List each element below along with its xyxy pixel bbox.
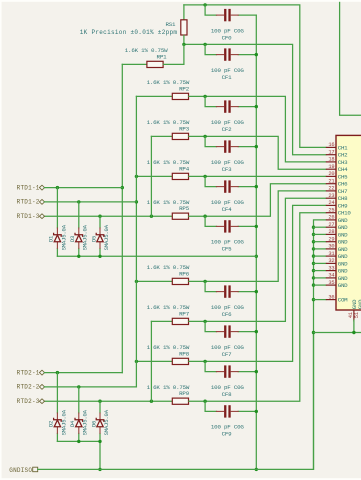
junctions TVS rail upper bbox=[77, 255, 102, 258]
port RTD2-3 bbox=[39, 399, 44, 404]
svg-text:CF4: CF4 bbox=[222, 206, 233, 213]
wire RTD2-1 bbox=[44, 372, 122, 374]
svg-text:RP1: RP1 bbox=[157, 53, 168, 60]
junction RP9 / CF9 bbox=[203, 400, 206, 403]
svg-text:33: 33 bbox=[328, 265, 334, 271]
svg-text:GND: GND bbox=[338, 282, 348, 289]
wire CF2 right to bus bbox=[238, 106, 256, 108]
wire vertical RP7-RP9 bbox=[150, 321, 152, 401]
wire vertical RTD-1 net bbox=[121, 64, 123, 372]
wire D4 bottom bbox=[78, 434, 80, 442]
junctions TVS rail lower bbox=[77, 440, 102, 471]
resistor RP8 bbox=[172, 358, 188, 364]
wire D3 bottom bbox=[78, 249, 80, 257]
svg-text:RP8: RP8 bbox=[179, 350, 190, 357]
svg-text:RP7: RP7 bbox=[179, 310, 190, 317]
capacitor CF4 bbox=[216, 180, 239, 192]
wire D1 top bbox=[56, 188, 58, 228]
wire COM pin 36 bbox=[314, 299, 326, 301]
svg-text:36: 36 bbox=[328, 294, 334, 300]
pin 24 line bbox=[326, 204, 336, 206]
wire CF6 left bbox=[205, 281, 216, 291]
svg-text:SMAJ5.0A: SMAJ5.0A bbox=[103, 409, 110, 435]
svg-text:32: 32 bbox=[328, 258, 334, 264]
wire bottom GND rail bbox=[314, 332, 361, 334]
svg-text:18: 18 bbox=[328, 157, 334, 163]
svg-text:31: 31 bbox=[328, 251, 334, 257]
wire GND pin 28 bbox=[314, 233, 326, 235]
svg-text:26: 26 bbox=[328, 215, 334, 221]
wire RP6 to pin 22 bbox=[189, 191, 326, 282]
svg-text:1K Precision ±0.01% ±2ppm: 1K Precision ±0.01% ±2ppm bbox=[80, 29, 178, 36]
pin 17 line bbox=[326, 154, 336, 156]
svg-text:100 pF C0G: 100 pF C0G bbox=[211, 304, 245, 311]
pin 29 line bbox=[326, 241, 336, 243]
svg-text:CH9: CH9 bbox=[338, 202, 348, 209]
wire D6 bottom bbox=[99, 434, 101, 442]
pin 31 line bbox=[326, 255, 336, 257]
wire RP2 row bbox=[136, 95, 172, 97]
wire D4 top bbox=[78, 387, 80, 413]
svg-text:100 pF C0G: 100 pF C0G bbox=[211, 159, 245, 166]
wire RP8 to pin 24 bbox=[189, 205, 326, 361]
wire GND pin 27 bbox=[314, 226, 326, 228]
wire top-right edge net bbox=[340, 0, 361, 115]
junction RTD1-3 / RP3 vertical bbox=[150, 215, 153, 218]
wire GND pin 29 bbox=[314, 241, 326, 243]
port RTD1-3 bbox=[39, 214, 44, 219]
junction RP8 / left vertical bbox=[135, 360, 138, 363]
svg-text:CF5: CF5 bbox=[222, 246, 233, 253]
pin 36 line bbox=[326, 299, 336, 301]
wire GND pin 35 bbox=[314, 284, 326, 286]
svg-text:COM: COM bbox=[338, 297, 348, 304]
capacitor CF5 bbox=[216, 220, 239, 232]
capacitor CF8 bbox=[216, 365, 239, 377]
resistor RP1 bbox=[147, 61, 163, 67]
wire CF1 left bbox=[205, 44, 216, 54]
junction RP3 / CF3 bbox=[203, 135, 206, 138]
port RTD1-2 bbox=[39, 200, 44, 205]
resistor RP9 bbox=[172, 398, 188, 404]
svg-text:CH8: CH8 bbox=[338, 195, 348, 202]
junction bottom GND pin bbox=[352, 331, 355, 334]
svg-text:GND: GND bbox=[338, 268, 348, 275]
wire vertical RP3-RP5 bbox=[150, 136, 152, 216]
wire RTD1-3 / RP5 row bbox=[44, 215, 172, 217]
wire CF6 right to bus bbox=[238, 291, 256, 293]
resistor RP5 bbox=[172, 213, 188, 219]
junction RTD1-1 / D1 bbox=[56, 186, 59, 189]
wire RP4 to pin 20 bbox=[189, 175, 326, 177]
resistor RP4 bbox=[172, 173, 188, 179]
wire RTD1-1 bbox=[44, 187, 122, 189]
svg-text:19: 19 bbox=[328, 164, 334, 170]
pin 18 line bbox=[326, 161, 336, 163]
svg-text:25: 25 bbox=[328, 208, 334, 214]
wire GND pin 33 bbox=[314, 270, 326, 272]
svg-text:27: 27 bbox=[328, 222, 334, 228]
wire RP7 row bbox=[151, 320, 172, 322]
svg-text:16: 16 bbox=[328, 142, 334, 148]
svg-text:GND: GND bbox=[338, 246, 348, 253]
svg-text:RP9: RP9 bbox=[179, 390, 190, 397]
svg-text:CH2: CH2 bbox=[338, 152, 348, 159]
capacitor CF6 bbox=[216, 285, 239, 297]
svg-text:RTD1-3: RTD1-3 bbox=[17, 213, 40, 220]
wire RTD2-3 / RP9 row bbox=[44, 400, 172, 402]
wire D1 bottom bbox=[56, 249, 58, 257]
wire D5 bottom bbox=[99, 249, 101, 257]
wire CF4 right to bus bbox=[238, 186, 256, 188]
junctions cap bus bbox=[255, 53, 258, 471]
svg-text:CF8: CF8 bbox=[222, 391, 233, 398]
svg-text:GND: GND bbox=[338, 217, 348, 224]
junction RTD1-2 / D3 bbox=[77, 200, 80, 203]
diode D5 SMAJ5.0A bbox=[96, 228, 104, 249]
resistor RP3 bbox=[172, 133, 188, 139]
svg-text:22: 22 bbox=[328, 186, 334, 192]
diode D4 SMAJ5.0A bbox=[75, 413, 83, 434]
svg-text:SMAJ5.0A: SMAJ5.0A bbox=[103, 224, 110, 250]
svg-text:D6: D6 bbox=[90, 421, 97, 427]
port RTD2-1 bbox=[39, 370, 44, 375]
svg-text:RP3: RP3 bbox=[179, 125, 190, 132]
diode D3 SMAJ5.0A bbox=[75, 228, 83, 249]
junction RTD1-1 / vertical bbox=[121, 186, 124, 189]
wire CF0 right to bus bbox=[238, 14, 256, 16]
capacitor CF9 bbox=[216, 405, 239, 417]
wire CF3 left bbox=[205, 136, 216, 146]
capacitor CF7 bbox=[216, 325, 239, 337]
junction RP5 / CF5 bbox=[203, 215, 206, 218]
wire CF9 left bbox=[205, 401, 216, 411]
pin 30 line bbox=[326, 248, 336, 250]
wire CF3 right to bus bbox=[238, 146, 256, 148]
wire CF7 right to bus bbox=[238, 331, 256, 333]
svg-text:CF2: CF2 bbox=[222, 126, 233, 133]
diode D2 SMAJ5.0A bbox=[54, 413, 62, 434]
capacitor CF0 bbox=[216, 9, 239, 21]
svg-text:34: 34 bbox=[328, 273, 334, 279]
wire RTD1-2 bbox=[44, 201, 136, 203]
wire CF8 right to bus bbox=[238, 371, 256, 373]
wire CF1 right to bus bbox=[238, 54, 256, 56]
wire capacitor ground bus bbox=[255, 15, 257, 469]
wire node B horizontal bbox=[184, 44, 326, 154]
svg-text:RP5: RP5 bbox=[179, 205, 190, 212]
pin 28 line bbox=[326, 233, 336, 235]
svg-text:RTD1-1: RTD1-1 bbox=[17, 184, 40, 191]
connector U1 body bbox=[336, 135, 361, 310]
svg-text:D3: D3 bbox=[69, 236, 76, 242]
junction RTD1-3 / D5 bbox=[98, 215, 101, 218]
svg-text:100 pF C0G: 100 pF C0G bbox=[211, 344, 245, 351]
svg-text:RP6: RP6 bbox=[179, 270, 190, 277]
junction RP4 / left vertical bbox=[135, 175, 138, 178]
wire vertical RTD-2 net bbox=[135, 96, 137, 387]
wire RP5 to pin 21 bbox=[189, 184, 326, 217]
svg-text:29: 29 bbox=[328, 237, 334, 243]
svg-text:SMAJ5.0A: SMAJ5.0A bbox=[60, 409, 67, 435]
svg-text:100 pF C0G: 100 pF C0G bbox=[211, 119, 245, 126]
svg-text:SMAJ5.0A: SMAJ5.0A bbox=[82, 409, 89, 435]
wire RP9 to pin 25 bbox=[189, 213, 326, 402]
svg-text:100 pF C0G: 100 pF C0G bbox=[211, 239, 245, 246]
svg-text:100 pF C0G: 100 pF C0G bbox=[211, 424, 245, 431]
junction RP8 / CF8 bbox=[203, 360, 206, 363]
pin 26 line bbox=[326, 219, 336, 221]
svg-text:100 pF C0G: 100 pF C0G bbox=[211, 27, 245, 34]
junction RTD1-2 / vertical bbox=[135, 200, 138, 203]
pin 25 line bbox=[326, 212, 336, 214]
pin 27 line bbox=[326, 226, 336, 228]
wire CF4 left bbox=[205, 176, 216, 186]
wire TVS rail upper bbox=[57, 255, 256, 257]
svg-text:GND: GND bbox=[338, 224, 348, 231]
svg-text:RTD2-3: RTD2-3 bbox=[17, 398, 40, 405]
svg-text:CH7: CH7 bbox=[338, 188, 348, 195]
svg-text:100 pF C0G: 100 pF C0G bbox=[211, 384, 245, 391]
resistor RS1 bbox=[181, 20, 187, 35]
svg-text:100 pF C0G: 100 pF C0G bbox=[211, 199, 245, 206]
pin 19 line bbox=[326, 168, 336, 170]
port GNDISO bbox=[33, 467, 38, 472]
svg-text:CF9: CF9 bbox=[222, 431, 233, 438]
svg-text:RP2: RP2 bbox=[179, 85, 190, 92]
wire D3 top bbox=[78, 202, 80, 228]
svg-text:20: 20 bbox=[328, 171, 334, 177]
wire RS1 top lead bbox=[183, 5, 185, 20]
svg-text:CF1: CF1 bbox=[222, 74, 233, 81]
svg-text:GND: GND bbox=[338, 239, 348, 246]
junction RTD2-3 / D6 bbox=[98, 400, 101, 403]
wire RP4 row bbox=[136, 175, 172, 177]
resistor RP6 bbox=[172, 278, 188, 284]
junction RTD2-2 / D4 bbox=[77, 385, 80, 388]
wire CF8 left bbox=[205, 361, 216, 371]
wire GNDISO bbox=[38, 333, 314, 470]
port RTD1-1 bbox=[39, 185, 44, 190]
capacitor CF3 bbox=[216, 140, 239, 152]
svg-text:100 pF C0G: 100 pF C0G bbox=[211, 67, 245, 74]
svg-text:CH1: CH1 bbox=[338, 144, 348, 151]
resistor RP7 bbox=[172, 318, 188, 324]
svg-text:GND: GND bbox=[357, 299, 361, 309]
wire GND bus bbox=[314, 220, 326, 470]
pin 23 line bbox=[326, 197, 336, 199]
capacitor CF2 bbox=[216, 100, 239, 112]
svg-text:28: 28 bbox=[328, 229, 334, 235]
svg-text:SMAJ5.0A: SMAJ5.0A bbox=[82, 224, 89, 250]
diode D1 SMAJ5.0A bbox=[54, 228, 62, 249]
wire RP1 right up to node B bbox=[163, 44, 184, 64]
wire D6 top bbox=[99, 401, 101, 413]
pin 35 line bbox=[326, 284, 336, 286]
svg-text:SMAJ5.0A: SMAJ5.0A bbox=[60, 224, 67, 250]
svg-text:GND: GND bbox=[338, 260, 348, 267]
wire GND pin 32 bbox=[314, 262, 326, 264]
wire CF5 right to bus bbox=[238, 225, 256, 227]
svg-text:RTD2-2: RTD2-2 bbox=[17, 384, 40, 391]
wire GND pin 30 bbox=[314, 248, 326, 250]
svg-text:CF7: CF7 bbox=[222, 351, 233, 358]
wire bottom GND pins bbox=[353, 320, 355, 332]
pin 20 line bbox=[326, 175, 336, 177]
svg-text:RS1: RS1 bbox=[165, 21, 176, 28]
junction RP6 / CF6 bbox=[203, 280, 206, 283]
wire RP8 row bbox=[136, 360, 172, 362]
wire CF2 left bbox=[205, 96, 216, 106]
pin 32 line bbox=[326, 262, 336, 264]
wire D2 top bbox=[56, 373, 58, 413]
junction RP7 / CF7 bbox=[203, 320, 206, 323]
wire RP3 to pin 19 bbox=[189, 136, 326, 169]
svg-text:D1: D1 bbox=[48, 235, 55, 242]
svg-text:21: 21 bbox=[328, 179, 334, 185]
wire RP7 to pin 23 bbox=[189, 198, 326, 321]
svg-text:23: 23 bbox=[328, 193, 334, 199]
wire CF9 right to bus bbox=[238, 410, 256, 412]
junction RP6 / left vertical bbox=[135, 280, 138, 283]
junction node B / CF1 bbox=[203, 43, 206, 46]
svg-text:CH6: CH6 bbox=[338, 181, 348, 188]
junctions GND bus bbox=[312, 226, 315, 335]
svg-text:RTD1-2: RTD1-2 bbox=[17, 199, 40, 206]
svg-text:CF0: CF0 bbox=[222, 34, 233, 41]
svg-text:30: 30 bbox=[328, 244, 334, 250]
svg-text:CF6: CF6 bbox=[222, 311, 233, 318]
wire CF5 left bbox=[205, 216, 216, 226]
wire CF7 left bbox=[205, 321, 216, 331]
capacitor CF1 bbox=[216, 48, 239, 60]
wire RP3 row bbox=[151, 135, 172, 137]
wire GND pin 34 bbox=[314, 277, 326, 279]
svg-text:CH3: CH3 bbox=[338, 159, 348, 166]
wire CF0 left bbox=[205, 5, 216, 15]
port RTD2-2 bbox=[39, 385, 44, 390]
pin 41 line bottom bbox=[353, 310, 355, 322]
wire TVS rail lower bbox=[57, 441, 100, 469]
svg-text:D5: D5 bbox=[90, 236, 97, 242]
svg-text:CH5: CH5 bbox=[338, 173, 348, 180]
svg-text:D2: D2 bbox=[48, 421, 55, 427]
wire RP1 left bbox=[122, 63, 147, 65]
svg-text:17: 17 bbox=[328, 150, 334, 156]
svg-text:51: 51 bbox=[354, 312, 360, 318]
junction node B / RS1 / RP1 bbox=[182, 43, 185, 46]
svg-text:RTD2-1: RTD2-1 bbox=[17, 369, 40, 376]
pin 16 line bbox=[326, 146, 336, 148]
svg-text:24: 24 bbox=[328, 200, 334, 206]
svg-text:GND: GND bbox=[338, 231, 348, 238]
svg-text:RP4: RP4 bbox=[179, 165, 190, 172]
diode D6 SMAJ5.0A bbox=[96, 413, 104, 434]
svg-text:CH10: CH10 bbox=[338, 210, 352, 217]
wire D2 bottom bbox=[56, 434, 58, 442]
wire GND pin 31 bbox=[314, 255, 326, 257]
svg-text:D4: D4 bbox=[69, 420, 76, 427]
svg-text:CF3: CF3 bbox=[222, 166, 233, 173]
wire RTD2-2 bbox=[44, 386, 136, 388]
wire D5 top bbox=[99, 216, 101, 228]
wire RS1 bottom lead bbox=[183, 35, 185, 44]
wire RP2 to pin 18 bbox=[189, 96, 326, 161]
pin 33 line bbox=[326, 270, 336, 272]
junction RTD2-3 / RP7 vertical bbox=[150, 400, 153, 403]
junction RP4 / CF4 bbox=[203, 175, 206, 178]
svg-text:GND: GND bbox=[338, 253, 348, 260]
svg-text:GND: GND bbox=[338, 275, 348, 282]
resistor RP2 bbox=[172, 93, 188, 99]
junction node A / CF0 bbox=[203, 3, 206, 6]
pin 34 line bbox=[326, 277, 336, 279]
pin 22 line bbox=[326, 190, 336, 192]
junction RTD2-1 / D2 bbox=[56, 371, 59, 374]
wire node A horizontal bbox=[184, 5, 326, 148]
svg-text:35: 35 bbox=[328, 280, 334, 286]
pin 21 line bbox=[326, 183, 336, 185]
svg-text:CH4: CH4 bbox=[338, 166, 348, 173]
junction RP2 / CF2 bbox=[203, 95, 206, 98]
wire RP6 row bbox=[136, 280, 172, 282]
svg-text:GNDISO: GNDISO bbox=[9, 467, 32, 474]
